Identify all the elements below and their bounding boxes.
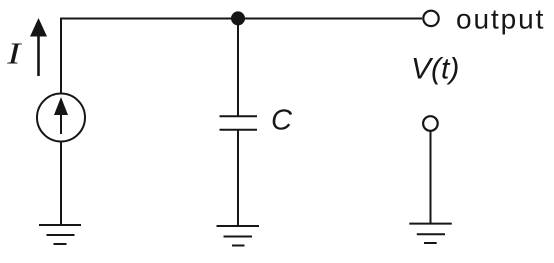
svg-text:V(t): V(t) — [411, 53, 459, 86]
svg-text:C: C — [271, 105, 293, 137]
svg-text:I: I — [6, 36, 23, 71]
svg-text:output: output — [456, 4, 545, 35]
